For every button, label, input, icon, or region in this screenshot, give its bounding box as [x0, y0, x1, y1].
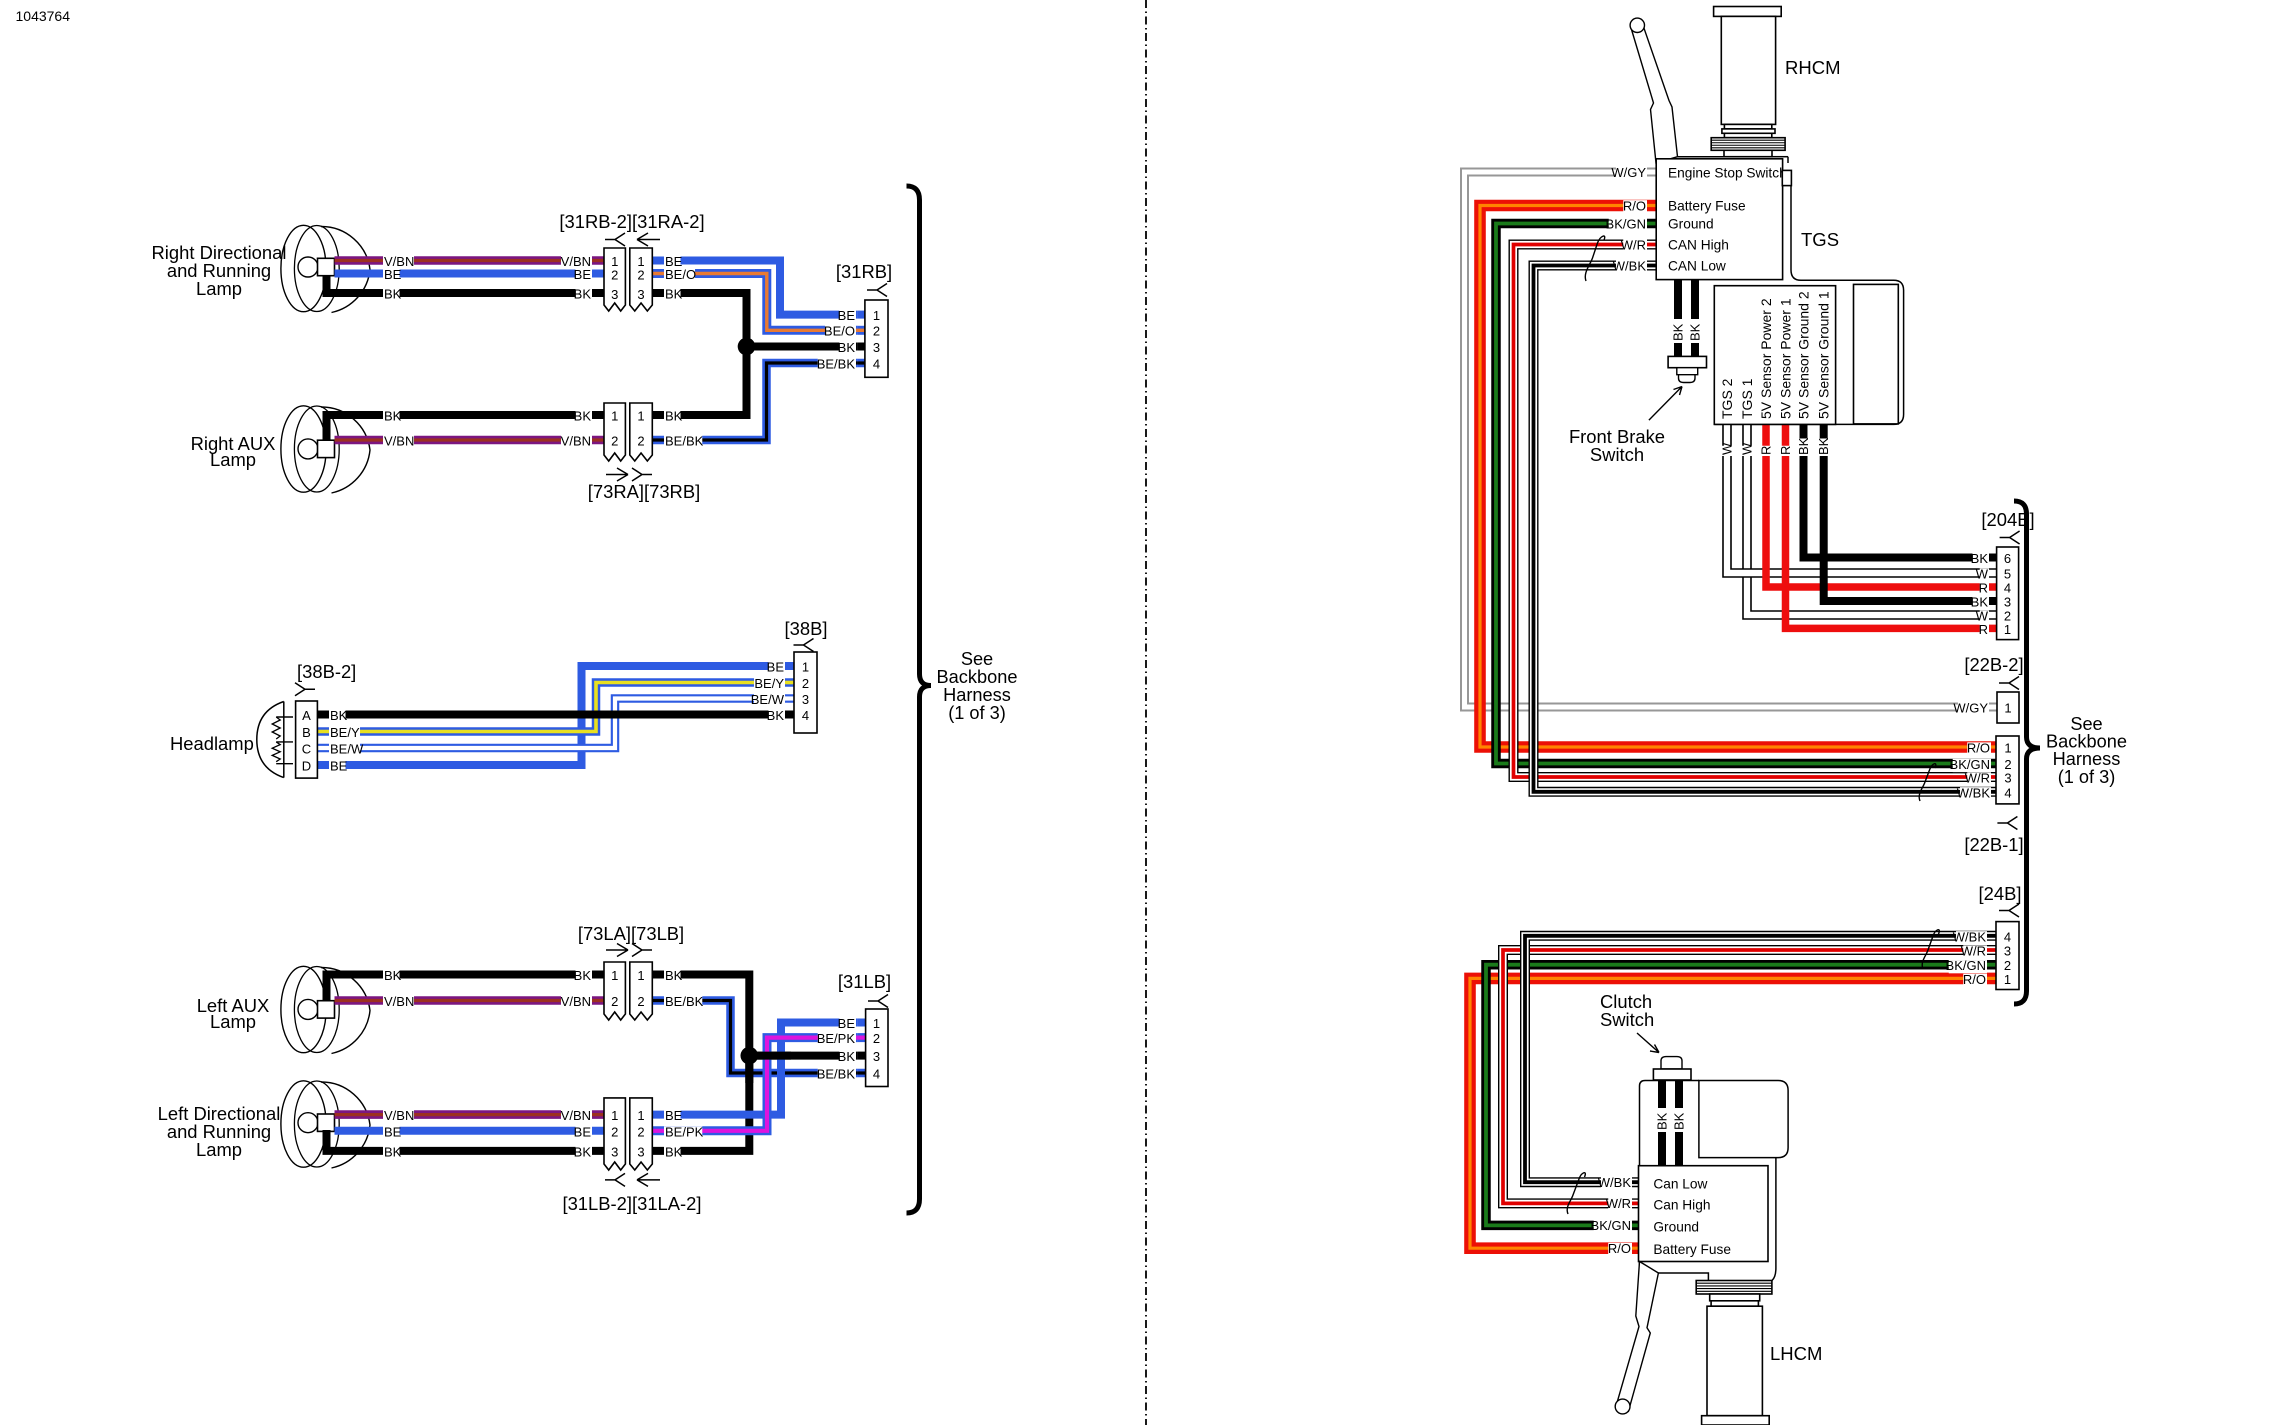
- wire labels at [22B-1]: [1967, 742, 1991, 755]
- svg-text:R: R: [1979, 581, 1988, 596]
- wire labels BE BE/O BK after [31RA-2]: [664, 256, 681, 269]
- LHCM box: [1639, 1166, 1769, 1262]
- twisted pair mark near engine stop switch: [1585, 236, 1604, 281]
- front brake switch arrow: [1649, 387, 1682, 421]
- wire labels BK V/BN at right aux lamp: [383, 410, 400, 423]
- svg-text:A: A: [302, 708, 311, 723]
- center divider dash-dot line: [1145, 0, 1147, 1425]
- wire R/O engine stop switch to [22B-1] pin 1: [1480, 206, 1996, 748]
- svg-text:W/R: W/R: [1965, 771, 1990, 786]
- clutch switch base: [1653, 1069, 1691, 1080]
- svg-text:[22B-2]: [22B-2]: [1964, 654, 2023, 675]
- svg-text:Lamp: Lamp: [196, 278, 242, 299]
- svg-text:BE/BK: BE/BK: [817, 1067, 856, 1082]
- svg-text:BE/BK: BE/BK: [665, 434, 704, 449]
- svg-text:BE/W: BE/W: [330, 742, 364, 757]
- svg-text:BE/Y: BE/Y: [330, 725, 360, 740]
- brace See Backbone Harness left page: [907, 186, 932, 1213]
- svg-text:2: 2: [873, 1031, 880, 1046]
- RHCM neck: [1724, 150, 1772, 156]
- svg-text:1: 1: [873, 1016, 880, 1031]
- branch symbol [22B-1]: [1997, 817, 2017, 830]
- svg-text:R/O: R/O: [1608, 1241, 1631, 1256]
- svg-text:BE: BE: [330, 759, 348, 774]
- svg-text:BK: BK: [665, 968, 683, 983]
- wire BE left directional lamp to [31LB-2]: [335, 1127, 605, 1135]
- svg-text:1: 1: [2004, 741, 2011, 756]
- mating arrows [73RA][73RB]: [606, 468, 628, 481]
- svg-text:1043764: 1043764: [16, 8, 71, 24]
- svg-text:Lamp: Lamp: [210, 449, 256, 470]
- connector [31RB-2] box: [604, 248, 625, 311]
- svg-text:W/BK: W/BK: [1957, 785, 1991, 800]
- svg-text:BK/GN: BK/GN: [1591, 1218, 1631, 1233]
- svg-text:R/O: R/O: [1967, 741, 1990, 756]
- svg-text:[22B-1]: [22B-1]: [1964, 834, 2023, 855]
- wire BK clutch 2: [1675, 1080, 1683, 1108]
- svg-text:4: 4: [2004, 785, 2011, 800]
- svg-text:4: 4: [802, 708, 809, 723]
- wire BE/BK from right aux lamp to [31RB] pin 4: [652, 363, 857, 440]
- wire R/O LHCM to [24B] pin 1: [1470, 978, 1996, 1248]
- svg-text:1: 1: [2004, 701, 2011, 716]
- svg-text:BK: BK: [330, 708, 348, 723]
- connector [31RA-2] box: [630, 248, 653, 311]
- svg-text:BE: BE: [838, 308, 856, 323]
- svg-text:5: 5: [2004, 567, 2011, 582]
- svg-text:2: 2: [802, 676, 809, 691]
- svg-text:4: 4: [2004, 581, 2011, 596]
- twisted pair mark near [24B]: [1922, 930, 1939, 969]
- svg-text:BE: BE: [574, 1125, 592, 1140]
- svg-text:2: 2: [611, 268, 618, 283]
- RHCM grip cap: [1714, 7, 1782, 17]
- svg-text:BE: BE: [384, 267, 402, 282]
- wire W/R LHCM to [24B] pin 3: [1503, 950, 1996, 1203]
- svg-text:[31RB-2][31RA-2]: [31RB-2][31RA-2]: [559, 211, 704, 232]
- TGS empty box: [1854, 284, 1899, 424]
- svg-text:2: 2: [611, 1125, 618, 1140]
- svg-text:R: R: [1979, 622, 1988, 637]
- wire V/BN left aux lamp to [73LA]: [335, 996, 605, 1005]
- wire BK right directional lamp to [31RB-2]: [327, 275, 605, 293]
- svg-text:[38B-2]: [38B-2]: [297, 661, 356, 682]
- wire labels at [24B]: [1956, 931, 1987, 944]
- LHCM lever: [1618, 1262, 1659, 1412]
- connector [31RB] box: [865, 300, 888, 377]
- svg-text:BE: BE: [574, 267, 592, 282]
- wire BE/BK left aux to [31LB] pin 4: [652, 1001, 857, 1074]
- svg-text:D: D: [302, 759, 311, 774]
- svg-text:2: 2: [637, 268, 644, 283]
- wire BK junction spur to [31LB] pin 3: [749, 1052, 857, 1060]
- svg-text:1: 1: [637, 409, 644, 424]
- svg-text:(1 of 3): (1 of 3): [948, 703, 1006, 723]
- engine stop switch box: [1656, 159, 1782, 280]
- wire V/BN right directional lamp to [31RB-2]: [335, 256, 605, 265]
- branch symbol [38B]: [794, 639, 814, 652]
- svg-text:1: 1: [2004, 972, 2011, 987]
- junction node BK left: [741, 1047, 759, 1065]
- svg-text:5V Sensor Power 2: 5V Sensor Power 2: [1758, 298, 1774, 419]
- svg-text:[24B]: [24B]: [1979, 883, 2022, 904]
- wire BK crossing patches: [757, 1052, 791, 1060]
- svg-text:3: 3: [802, 692, 809, 707]
- clutch switch arrow: [1637, 1033, 1659, 1053]
- wire labels BE BE/PK BK after [31LA-2]: [664, 1110, 681, 1123]
- svg-text:3: 3: [2004, 771, 2011, 786]
- LHCM left edge: [1640, 1081, 1699, 1166]
- svg-text:5V Sensor Power 1: 5V Sensor Power 1: [1777, 298, 1793, 419]
- mating arrows [31RB-2][31RA-2]: [605, 233, 625, 246]
- wire labels at [38B]: [768, 661, 785, 674]
- svg-text:BK: BK: [574, 409, 592, 424]
- svg-text:W/BK: W/BK: [1953, 929, 1987, 944]
- svg-text:Harness: Harness: [2053, 749, 2121, 769]
- svg-text:CAN High: CAN High: [1668, 238, 1729, 253]
- svg-text:3: 3: [611, 1145, 618, 1160]
- svg-text:W/GY: W/GY: [1953, 701, 1988, 716]
- svg-text:3: 3: [2004, 595, 2011, 610]
- svg-text:Ground: Ground: [1668, 217, 1714, 232]
- svg-text:BK: BK: [1971, 595, 1989, 610]
- LHCM rings: [1710, 1294, 1760, 1301]
- left directional lamp symbol: [321, 1082, 370, 1168]
- svg-text:See: See: [961, 649, 993, 669]
- wire BK left aux lamp to [73LA]: [327, 975, 605, 1002]
- svg-text:W: W: [1740, 442, 1755, 455]
- svg-text:[31RB]: [31RB]: [836, 261, 892, 282]
- svg-text:BK: BK: [1672, 1112, 1687, 1130]
- wire BE/W headlamp C to [38B] pin 3: [317, 699, 786, 749]
- wire BE/Y headlamp B to [38B] pin 2: [317, 683, 786, 732]
- svg-text:TGS 1: TGS 1: [1739, 378, 1755, 419]
- svg-text:R: R: [1759, 446, 1774, 455]
- wire labels BK BE/BK after [73LB]: [664, 970, 681, 983]
- clutch switch bump: [1661, 1057, 1682, 1069]
- wire W/BK engine stop switch to [22B-1] pin 4: [1534, 266, 1997, 792]
- svg-text:[38B]: [38B]: [785, 618, 828, 639]
- svg-text:W/BK: W/BK: [1613, 258, 1647, 273]
- wire labels V/BN BE BK at [31LB-2]: [561, 1110, 592, 1123]
- svg-text:2: 2: [637, 994, 644, 1009]
- wire labels V/BN BE BK at lamp: [383, 256, 414, 269]
- branch symbol [204B]: [2000, 531, 2020, 544]
- svg-text:R/O: R/O: [1963, 972, 1986, 987]
- svg-text:(1 of 3): (1 of 3): [2058, 767, 2116, 787]
- connector [73LA] box: [604, 962, 625, 1020]
- svg-text:4: 4: [873, 1067, 880, 1082]
- mating arrows [73LA][73LB]: [606, 944, 628, 957]
- svg-text:BE/BK: BE/BK: [665, 994, 704, 1009]
- svg-text:2: 2: [637, 1125, 644, 1140]
- TGS outline: [1714, 186, 1903, 425]
- wire W/BK LHCM to [24B] pin 4: [1525, 936, 1996, 1182]
- svg-text:3: 3: [2004, 944, 2011, 959]
- wire BK 5V sensor ground 2 to [204B] pin 6: [1804, 424, 1997, 557]
- wire labels at headlamp: [329, 710, 346, 723]
- wire BK brake 1: [1674, 280, 1682, 319]
- LHCM grip cap: [1702, 1416, 1770, 1425]
- headlamp filament resistors: [272, 717, 280, 762]
- svg-text:2: 2: [637, 434, 644, 449]
- RHCM ribbed block: [1711, 138, 1785, 151]
- svg-text:BE/BK: BE/BK: [817, 357, 856, 372]
- svg-text:1: 1: [637, 1108, 644, 1123]
- svg-text:3: 3: [637, 1145, 644, 1160]
- connector [73RB] box: [630, 403, 653, 461]
- rotated wire labels W W R R BK BK: [1720, 446, 1734, 456]
- wire labels BK V/BN at [73LA]: [575, 970, 592, 983]
- svg-text:Switch: Switch: [1590, 444, 1644, 465]
- svg-text:1: 1: [637, 968, 644, 983]
- svg-text:Battery Fuse: Battery Fuse: [1668, 199, 1746, 214]
- wire W/R engine stop switch to [22B-1] pin 3: [1514, 245, 1997, 778]
- svg-text:Battery Fuse: Battery Fuse: [1653, 1242, 1731, 1257]
- headlamp symbol: [257, 702, 284, 778]
- svg-text:BK/GN: BK/GN: [1606, 216, 1646, 231]
- svg-text:V/BN: V/BN: [384, 994, 414, 1009]
- wire W TGS 1 to [204B] pin 2: [1747, 424, 1997, 615]
- svg-text:BE/PK: BE/PK: [665, 1125, 704, 1140]
- wire labels V/BN BE BK at connector [31RB-2]: [561, 256, 592, 269]
- svg-text:6: 6: [2004, 551, 2011, 566]
- svg-text:BE: BE: [384, 1125, 402, 1140]
- svg-text:BK: BK: [574, 1145, 592, 1160]
- wire labels at [31LB]: [839, 1018, 856, 1031]
- connector [73RA] box: [604, 403, 625, 461]
- wire labels at [31RB]: [839, 310, 856, 323]
- left aux lamp symbol: [321, 967, 370, 1053]
- svg-text:BE/Y: BE/Y: [754, 676, 784, 691]
- connector [31LB] box: [866, 1009, 888, 1087]
- svg-text:BK: BK: [384, 409, 402, 424]
- svg-text:BK: BK: [1796, 437, 1811, 455]
- svg-text:BE/O: BE/O: [824, 324, 855, 339]
- svg-text:1: 1: [802, 660, 809, 675]
- wire V/BN left directional lamp to [31LB-2]: [335, 1110, 605, 1119]
- wire BK brake 2: [1691, 280, 1699, 319]
- mating arrows [31LB-2][31LA-2]: [605, 1173, 625, 1186]
- svg-text:1: 1: [611, 968, 618, 983]
- TGS box: [1714, 286, 1835, 425]
- connector [22B-2] box: [1997, 692, 2019, 723]
- wire labels at [204B]: [1972, 553, 1989, 566]
- svg-text:2: 2: [611, 994, 618, 1009]
- svg-text:V/BN: V/BN: [561, 994, 591, 1009]
- right directional lamp symbol: [321, 226, 370, 312]
- wire W/GY engine stop switch to [22B-2]: [1465, 172, 1998, 707]
- svg-text:BK: BK: [574, 287, 592, 302]
- svg-text:Ground: Ground: [1653, 1220, 1699, 1235]
- connector [73LB] box: [630, 962, 653, 1020]
- svg-text:BK: BK: [384, 1145, 402, 1160]
- wire BE left directional to [31LB] pin 1: [652, 1023, 857, 1115]
- svg-text:BE: BE: [767, 660, 785, 675]
- svg-text:5V Sensor Ground 1: 5V Sensor Ground 1: [1816, 291, 1832, 419]
- svg-text:W/GY: W/GY: [1611, 165, 1646, 180]
- LHCM ribbed block: [1696, 1281, 1772, 1295]
- svg-text:R: R: [1778, 446, 1793, 455]
- svg-text:Backbone: Backbone: [937, 667, 1018, 687]
- svg-text:BK: BK: [665, 287, 683, 302]
- svg-text:Engine Stop Switch: Engine Stop Switch: [1668, 166, 1787, 181]
- svg-text:1: 1: [2004, 622, 2011, 637]
- LHCM lower outline: [1640, 1158, 1776, 1281]
- svg-text:[31LB-2][31LA-2]: [31LB-2][31LA-2]: [562, 1193, 701, 1214]
- svg-text:W/R: W/R: [1961, 944, 1986, 959]
- svg-text:V/BN: V/BN: [384, 1108, 414, 1123]
- svg-text:Switch: Switch: [1600, 1009, 1654, 1030]
- wire W TGS 2 to [204B] pin 5: [1727, 424, 1997, 573]
- connector [24B] box: [1996, 922, 2019, 990]
- wire labels BK BE/BK after [73RB]: [664, 410, 681, 423]
- svg-text:3: 3: [611, 287, 618, 302]
- svg-text:BK: BK: [1688, 323, 1703, 341]
- svg-text:3: 3: [637, 287, 644, 302]
- wire labels at LHCM: [1601, 1177, 1632, 1190]
- tab on engine stop switch box: [1782, 170, 1791, 185]
- svg-text:BK: BK: [384, 968, 402, 983]
- wire V/BN right aux lamp to [73RA]: [335, 436, 605, 445]
- svg-text:BK: BK: [665, 409, 683, 424]
- svg-text:1: 1: [873, 308, 880, 323]
- svg-text:BK: BK: [838, 340, 856, 355]
- wire BK left aux to left directional lamp: [652, 975, 749, 1151]
- wire label W/GY at [22B-2]: [1958, 702, 1989, 715]
- svg-text:W: W: [1976, 567, 1989, 582]
- wire BE/O from [31RA-2] to [31RB] pin 2: [652, 274, 857, 331]
- connector [38B-2] box: [296, 701, 318, 778]
- svg-text:BK: BK: [838, 1049, 856, 1064]
- wire labels BK V/BN at [73RA]: [575, 410, 592, 423]
- wire labels BK V/BN at left aux lamp: [383, 970, 400, 983]
- svg-text:3: 3: [873, 1049, 880, 1064]
- svg-text:V/BN: V/BN: [384, 434, 414, 449]
- wire BE right directional lamp to [31RB-2]: [335, 270, 605, 278]
- wire R 5V sensor power 1 to [204B] pin 1: [1786, 424, 1997, 628]
- svg-text:W: W: [1720, 442, 1735, 455]
- svg-text:BK: BK: [574, 968, 592, 983]
- svg-text:C: C: [302, 742, 311, 757]
- RHCM grip rings: [1724, 124, 1771, 128]
- branch symbol [24B]: [1999, 904, 2019, 917]
- branch symbol [31LB]: [868, 995, 888, 1008]
- svg-text:Harness: Harness: [943, 685, 1011, 705]
- svg-text:R/O: R/O: [1623, 198, 1646, 213]
- wire stubs [31LB]: [858, 1019, 866, 1027]
- branch symbol [31RB]: [867, 284, 887, 297]
- svg-text:BE/PK: BE/PK: [817, 1031, 856, 1046]
- svg-text:Lamp: Lamp: [196, 1139, 242, 1160]
- svg-text:BE: BE: [665, 1108, 683, 1123]
- brace See Backbone Harness right page: [2014, 501, 2040, 1004]
- wire BK left directional lamp to [31LB-2]: [327, 1130, 605, 1151]
- svg-text:TGS: TGS: [1801, 229, 1839, 250]
- wire BK/GN LHCM to [24B] pin 2: [1486, 965, 1996, 1226]
- svg-text:4: 4: [2004, 929, 2011, 944]
- svg-text:[73LA][73LB]: [73LA][73LB]: [578, 923, 684, 944]
- LHCM module rect: [1699, 1081, 1788, 1158]
- wire BE from [31RA-2] to [31RB] pin 1: [652, 261, 857, 315]
- connector [204B] box: [1997, 547, 2019, 640]
- svg-text:BK: BK: [767, 708, 785, 723]
- twisted pair mark near [22B-1]: [1919, 764, 1936, 801]
- svg-text:BK: BK: [1971, 551, 1989, 566]
- branch symbol [22B-2]: [1999, 677, 2019, 690]
- svg-text:BK: BK: [665, 1145, 683, 1160]
- svg-text:TGS 2: TGS 2: [1719, 378, 1735, 419]
- wire labels V/BN BE BK at left directional lamp: [383, 1110, 414, 1123]
- svg-text:1: 1: [611, 1108, 618, 1123]
- front brake switch connector: [1668, 356, 1706, 367]
- wire stubs [38B]: [786, 662, 794, 670]
- connector [31LB-2] box: [604, 1098, 625, 1170]
- svg-text:[73RA][73RB]: [73RA][73RB]: [588, 481, 700, 502]
- svg-text:2: 2: [873, 324, 880, 339]
- svg-text:[31LB]: [31LB]: [838, 971, 891, 992]
- svg-text:V/BN: V/BN: [561, 434, 591, 449]
- right aux lamp symbol: [321, 407, 370, 493]
- svg-text:V/BN: V/BN: [561, 1108, 591, 1123]
- wire labels at engine stop switch: [1616, 167, 1647, 180]
- svg-text:Lamp: Lamp: [210, 1011, 256, 1032]
- svg-text:RHCM: RHCM: [1785, 57, 1841, 78]
- svg-text:BK: BK: [1671, 323, 1686, 341]
- wire BK junction spur to [31RB] pin 3: [747, 343, 858, 351]
- RHCM lever: [1632, 28, 1678, 163]
- wire BK right aux lamp to [73RA]: [327, 415, 605, 441]
- wire BE/PK left directional to [31LB] pin 2: [652, 1038, 857, 1131]
- svg-text:1: 1: [611, 409, 618, 424]
- svg-text:W/R: W/R: [1606, 1196, 1631, 1211]
- headlamp filament ticks: [276, 716, 293, 718]
- svg-text:BK: BK: [1655, 1112, 1670, 1130]
- svg-text:Headlamp: Headlamp: [170, 733, 254, 754]
- wire BE headlamp D to [38B] pin 1: [317, 666, 786, 765]
- connector [38B] box: [794, 652, 817, 733]
- wire BK 5V sensor ground 1 to [204B] pin 3: [1824, 424, 1997, 601]
- svg-text:3: 3: [873, 340, 880, 355]
- wire BK headlamp A to [38B] pin 4: [317, 711, 786, 719]
- svg-text:Can Low: Can Low: [1653, 1177, 1707, 1192]
- svg-text:BE/W: BE/W: [751, 692, 785, 707]
- svg-text:4: 4: [873, 357, 880, 372]
- svg-text:W/BK: W/BK: [1598, 1175, 1632, 1190]
- svg-text:B: B: [302, 725, 311, 740]
- wire BK/GN engine stop switch to [22B-1] pin 2: [1496, 224, 1996, 764]
- svg-text:BK: BK: [1816, 437, 1831, 455]
- svg-text:5V Sensor Ground 2: 5V Sensor Ground 2: [1795, 291, 1811, 419]
- connector [22B-1] box: [1996, 736, 2019, 804]
- wire R 5V sensor power 2 to [204B] pin 4: [1766, 424, 1997, 587]
- wire stubs [31RB]: [858, 311, 865, 319]
- svg-text:BE/O: BE/O: [665, 267, 696, 282]
- svg-text:Can High: Can High: [1653, 1198, 1710, 1213]
- LHCM grip body: [1707, 1306, 1762, 1416]
- svg-text:W/R: W/R: [1621, 237, 1646, 252]
- svg-text:BE: BE: [838, 1016, 856, 1031]
- wire BK from [31RA-2] through junction to right aux lamp: [652, 293, 746, 415]
- RHCM grip body: [1721, 16, 1775, 124]
- wire BK clutch 1: [1658, 1080, 1666, 1108]
- twisted pair mark near LHCM: [1567, 1173, 1585, 1214]
- svg-text:CAN Low: CAN Low: [1668, 258, 1726, 273]
- branch symbol [38B-2]: [295, 683, 315, 696]
- svg-text:LHCM: LHCM: [1770, 1343, 1822, 1364]
- junction node BK: [738, 338, 756, 356]
- connector [31LA-2] box: [630, 1098, 653, 1170]
